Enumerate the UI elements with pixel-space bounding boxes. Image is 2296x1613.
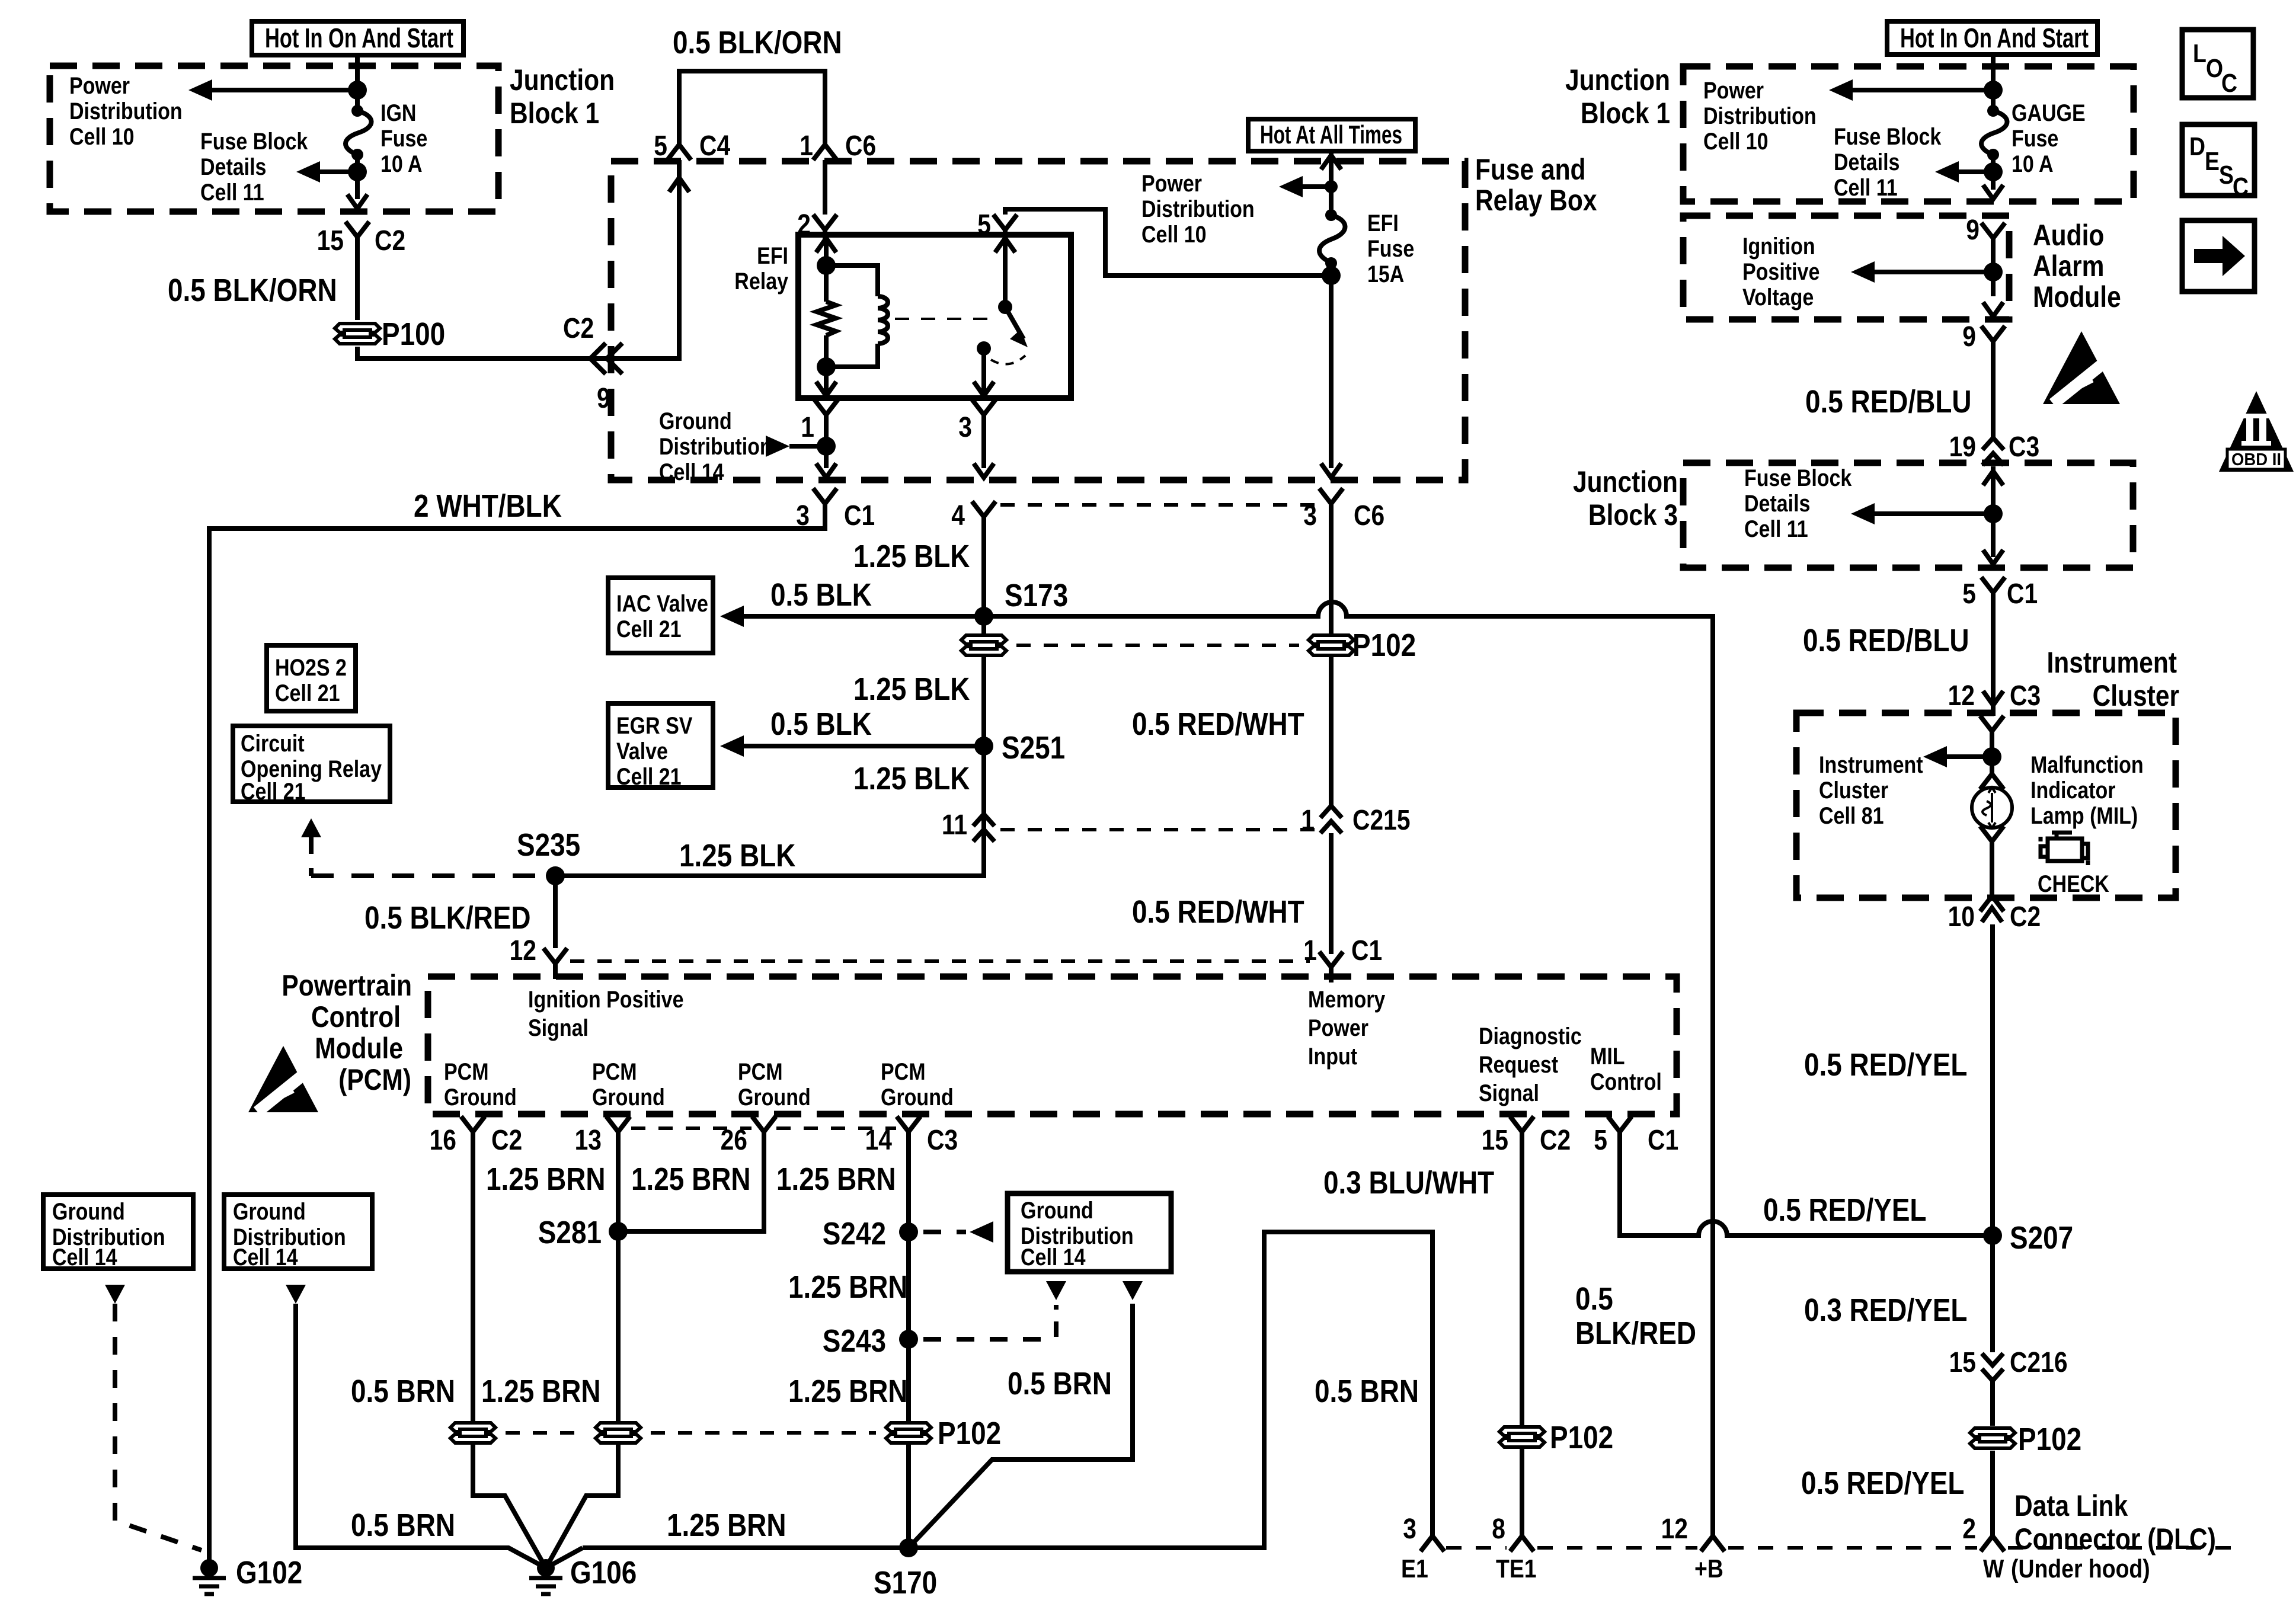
fuse GAUGE Fuse 10 A [1981, 111, 2007, 155]
wire bracket C4 to C6 [679, 71, 825, 141]
svg-text:PCM: PCM [881, 1058, 926, 1084]
relay coil [826, 265, 878, 296]
svg-text:Ground: Ground [881, 1083, 954, 1110]
svg-text:Positive: Positive [1742, 258, 1819, 284]
svg-text:15: 15 [1482, 1125, 1508, 1156]
label box: Hot In On And Start (left) [252, 21, 463, 55]
ground distribution box (second) [224, 1195, 372, 1269]
svg-text:+B: +B [1694, 1554, 1723, 1583]
svg-text:Module: Module [2033, 280, 2121, 313]
svg-text:Hot At All Times: Hot At All Times [1260, 120, 1402, 149]
PCM bottom connectors [461, 1116, 485, 1147]
svg-text:P102: P102 [1352, 628, 1416, 663]
pass-through P100 [335, 324, 380, 344]
junction block 3 dashed box [1683, 463, 2133, 568]
wire C216 to P102 [1990, 1381, 1995, 1426]
svg-text:Data Link: Data Link [2014, 1489, 2128, 1522]
svg-text:0.5 RED/WHT: 0.5 RED/WHT [1132, 706, 1304, 742]
svg-text:Indicator: Indicator [2030, 776, 2116, 803]
svg-text:Connector (DLC): Connector (DLC) [2014, 1522, 2216, 1556]
svg-text:Ignition Positive: Ignition Positive [528, 985, 683, 1012]
svg-text:S173: S173 [1005, 578, 1068, 613]
EGR SV Valve box [608, 703, 713, 788]
wire relay output 4 down to S173 [981, 532, 986, 616]
svg-text:3: 3 [1403, 1513, 1416, 1545]
svg-text:5: 5 [654, 130, 667, 162]
svg-text:Ground: Ground [1021, 1196, 1093, 1223]
wire PCM 14 down to S170 [906, 1147, 911, 1548]
svg-text:EGR SV: EGR SV [616, 712, 693, 738]
svg-text:13: 13 [575, 1125, 602, 1156]
JB3 bottom arrowhead [1983, 550, 2003, 564]
svg-text:12: 12 [1948, 680, 1975, 712]
connector 5 C1 [1981, 577, 2005, 608]
thin dashed P102 link [1016, 644, 1299, 647]
svg-text:2 WHT/BLK: 2 WHT/BLK [414, 488, 562, 524]
wire through JB3 [1991, 466, 1996, 557]
svg-text:8: 8 [1492, 1513, 1505, 1545]
svg-text:0.5: 0.5 [1575, 1281, 1613, 1317]
svg-text:Hot In On And Start: Hot In On And Start [265, 23, 453, 53]
svg-text:C: C [2221, 68, 2237, 98]
connector 15 C2 [346, 222, 369, 252]
svg-text:S242: S242 [823, 1216, 886, 1252]
wire 0.5 BRN from second box to G106 [296, 1304, 546, 1568]
svg-text:1: 1 [1301, 805, 1315, 836]
connector 2 above relay [813, 215, 837, 245]
node S242 [899, 1222, 918, 1241]
svg-text:Valve: Valve [616, 737, 668, 764]
svg-text:S251: S251 [1002, 730, 1065, 766]
svg-text:GAUGE: GAUGE [2012, 99, 2086, 126]
svg-text:O: O [2206, 53, 2223, 83]
svg-text:C3: C3 [927, 1125, 958, 1156]
svg-text:0.5 RED/YEL: 0.5 RED/YEL [1801, 1465, 1964, 1501]
svg-text:C1: C1 [1648, 1125, 1678, 1156]
svg-text:1.25 BRN: 1.25 BRN [776, 1161, 896, 1197]
wire 5 C1 MIL control to S207 [1620, 1147, 1993, 1236]
wire 0.5 BRN from right arrow to S170 [909, 1304, 1133, 1548]
relay coil exit down [824, 367, 829, 395]
connector 8 TE1 [1510, 1521, 1534, 1551]
arrow S251 to EGR valve [744, 744, 984, 748]
svg-text:P102: P102 [2018, 1422, 2081, 1457]
svg-text:C2: C2 [2010, 901, 2041, 933]
svg-text:PCM: PCM [444, 1058, 489, 1084]
svg-text:Fuse: Fuse [1367, 235, 1414, 261]
svg-text:Cluster: Cluster [1819, 776, 1888, 803]
svg-text:C6: C6 [845, 130, 876, 162]
svg-text:S281: S281 [538, 1215, 602, 1250]
svg-text:9: 9 [1962, 321, 1976, 353]
svg-text:0.5 BRN: 0.5 BRN [1315, 1374, 1419, 1409]
svg-text:Relay Box: Relay Box [1475, 184, 1597, 217]
wire EFI fuse down to box bottom [1329, 263, 1334, 468]
Circuit Opening Relay box [233, 726, 390, 802]
svg-text:IGN: IGN [380, 99, 416, 126]
connector 3 below relay [972, 399, 996, 430]
svg-text:Junction: Junction [1565, 63, 1670, 97]
junction block 1 (left) dashed box [50, 66, 498, 212]
wire lamp to C2 [1990, 857, 1994, 896]
svg-text:Power: Power [1308, 1014, 1368, 1041]
wire from hot box down [1991, 55, 1996, 111]
svg-text:Ground: Ground [738, 1083, 811, 1110]
svg-text:0.5 BRN: 0.5 BRN [351, 1374, 455, 1409]
dashed run to G102 wire [115, 1304, 202, 1550]
svg-text:2: 2 [1962, 1513, 1976, 1545]
arrow to Fuse Block Details Cell 11 [303, 169, 357, 174]
connector 12 [543, 948, 567, 979]
svg-text:0.5 BLK/RED: 0.5 BLK/RED [364, 900, 531, 936]
svg-text:HO2S 2: HO2S 2 [275, 654, 347, 680]
thin dashed connector line 4 to C6 [1000, 503, 1315, 507]
connector arrows into C2 (9) [590, 343, 622, 374]
wire PCM 26 down to S281 [618, 1147, 764, 1231]
arrow to Power Distribution Cell 10 (right) [1836, 88, 1993, 92]
wire: IGN feed vertical [355, 55, 360, 111]
pass-through P102 on S173 branch [981, 616, 986, 635]
ground distribution box (middle) [1008, 1193, 1171, 1272]
svg-text:TE1: TE1 [1496, 1554, 1537, 1583]
pass-through P102 on RED/WHT wire [1309, 635, 1354, 655]
svg-text:Instrument: Instrument [2046, 646, 2177, 679]
relay switch output down [981, 348, 986, 395]
connector 3 E1 [1421, 1521, 1444, 1551]
svg-text:Power: Power [69, 72, 130, 98]
svg-text:Fuse: Fuse [380, 124, 427, 151]
svg-text:Cell 21: Cell 21 [275, 679, 340, 706]
svg-text:P102: P102 [938, 1416, 1001, 1451]
svg-text:W: W [1983, 1554, 2004, 1583]
wire C215 down to 1 C1 [1329, 833, 1334, 954]
svg-text:BLK/RED: BLK/RED [1575, 1316, 1696, 1351]
wire C6 down to relay pin 2 [823, 160, 827, 215]
svg-text:Memory: Memory [1308, 985, 1386, 1012]
svg-text:C2: C2 [491, 1125, 522, 1156]
connector 5 C4 [667, 129, 691, 160]
svg-text:Block 3: Block 3 [1588, 498, 1678, 532]
svg-text:Cell 10: Cell 10 [69, 123, 135, 149]
wire S235 to 11 riser [555, 841, 984, 876]
svg-text:Cell 14: Cell 14 [1021, 1243, 1086, 1270]
svg-text:C1: C1 [2007, 578, 2038, 610]
svg-text:OBD II: OBD II [2231, 450, 2281, 469]
svg-text:EFI: EFI [757, 242, 788, 268]
IAC Valve box [608, 578, 713, 653]
svg-text:9: 9 [1966, 215, 1980, 246]
svg-text:Junction: Junction [1573, 465, 1678, 498]
svg-text:Cell 14: Cell 14 [659, 458, 724, 485]
svg-text:Power: Power [1141, 169, 1202, 196]
fuse and relay box dashed [611, 161, 1465, 480]
svg-text:E: E [2205, 146, 2220, 176]
svg-text:15: 15 [1949, 1347, 1976, 1378]
svg-text:1.25 BLK: 1.25 BLK [679, 838, 795, 873]
svg-text:12: 12 [510, 935, 536, 966]
svg-text:Ground: Ground [592, 1083, 665, 1110]
wire +B down (memory power feed) [1710, 1534, 1715, 1536]
svg-text:3: 3 [958, 412, 972, 443]
pass-through P102 on wire 13 [596, 1423, 641, 1443]
svg-text:D: D [2189, 132, 2205, 161]
svg-text:Ground: Ground [52, 1198, 125, 1224]
svg-text:S243: S243 [823, 1323, 886, 1359]
svg-text:C215: C215 [1352, 805, 1411, 836]
wire down to P100 [355, 252, 360, 320]
wire arrowhead at box bottom [347, 194, 367, 209]
audio alarm module dashed box [1683, 216, 2009, 319]
arrow Ignition Positive Voltage [1858, 270, 1993, 274]
svg-text:Cell 11: Cell 11 [200, 178, 264, 205]
connector 9 below audio box [1981, 326, 2005, 357]
svg-text:Signal: Signal [528, 1014, 589, 1041]
ground G106 [537, 1559, 555, 1577]
svg-text:Alarm: Alarm [2033, 249, 2104, 283]
svg-text:0.5 BRN: 0.5 BRN [351, 1508, 455, 1543]
connector 1 C6 [813, 129, 837, 160]
svg-text:Powertrain: Powertrain [282, 969, 412, 1002]
svg-text:Junction: Junction [510, 63, 615, 97]
svg-text:C216: C216 [2010, 1347, 2068, 1378]
node S170 [899, 1538, 918, 1557]
connector chevron below IC top [1980, 716, 2004, 747]
wire 5C1 to 12 C3 [1991, 608, 1996, 687]
arrow to Power Distribution Cell 10 [196, 88, 357, 92]
MIL lamp symbol [1980, 759, 2004, 789]
svg-text:E1: E1 [1401, 1554, 1428, 1583]
svg-text:Circuit: Circuit [241, 729, 305, 756]
ground G102 [200, 1559, 218, 1577]
svg-text:1: 1 [1303, 935, 1317, 966]
connector 9 at audio box top [1981, 223, 2005, 254]
svg-text:PCM: PCM [592, 1058, 637, 1084]
wire S170 to E1 riser [909, 1232, 1432, 1548]
connector 1 C215 [1320, 806, 1342, 833]
OBD II symbol [2219, 391, 2294, 472]
connector 2 W [1981, 1521, 2004, 1551]
svg-text:Distribution: Distribution [659, 433, 772, 459]
svg-text:Audio: Audio [2033, 219, 2104, 252]
svg-text:19: 19 [1949, 431, 1976, 463]
svg-text:0.5 RED/BLU: 0.5 RED/BLU [1803, 623, 1969, 658]
wire RED/WHT C6 to C215 [1329, 519, 1334, 635]
check engine icon [2041, 833, 2088, 865]
svg-text:Cell 21: Cell 21 [616, 763, 682, 789]
pass-through P102 on wire 16 [450, 1423, 495, 1443]
svg-text:Cluster: Cluster [2093, 679, 2179, 712]
arrow to Fuse Block Details Cell 11 (right) [1942, 169, 1993, 174]
connector 1 C1 memory power [1319, 952, 1343, 982]
svg-text:MIL: MIL [1590, 1042, 1625, 1069]
wire PCM 13 down to G106 [546, 1147, 618, 1568]
svg-text:0.5 BRN: 0.5 BRN [1008, 1366, 1112, 1401]
wire S207 down to C216 [1990, 924, 1995, 1352]
svg-text:S170: S170 [874, 1565, 937, 1601]
svg-text:C2: C2 [375, 225, 405, 257]
junction block 1 (right) dashed box [1683, 66, 2134, 201]
arrow Fuse Block Details Cell 11 (JB3) [1858, 511, 1993, 516]
DESC box [2182, 124, 2255, 196]
svg-text:C1: C1 [844, 500, 875, 532]
dashed arrow from S235 to circuit opening relay [301, 818, 321, 837]
svg-text:Ignition: Ignition [1742, 232, 1815, 259]
wire S173 to S251 [981, 655, 986, 746]
svg-text:Cell 11: Cell 11 [1834, 174, 1898, 200]
svg-text:Distribution: Distribution [69, 97, 183, 124]
ESD symbol at PCM [248, 1046, 323, 1116]
svg-text:0.5 RED/YEL: 0.5 RED/YEL [1804, 1047, 1967, 1083]
ESD symbol near audio alarm [2043, 331, 2124, 408]
bottom 1.25 BRN bus into G106 [583, 1545, 909, 1550]
svg-text:5: 5 [977, 209, 991, 241]
label box: Hot In On And Start (right) [1887, 21, 2097, 55]
arrow Instrument Cluster Cell 81 [1982, 747, 2001, 766]
svg-text:IAC Valve: IAC Valve [616, 590, 708, 616]
svg-text:10: 10 [1948, 901, 1975, 933]
wire to MIL lamp [1990, 731, 1994, 776]
svg-text:Cell 11: Cell 11 [1744, 515, 1808, 542]
pass-through P102 on TE1 wire [1499, 1427, 1544, 1447]
node S173 [974, 607, 993, 626]
svg-text:1.25 BRN: 1.25 BRN [481, 1374, 601, 1409]
svg-text:Control: Control [311, 1000, 401, 1033]
powertrain control module dashed box [428, 977, 1677, 1114]
svg-text:1.25 BLK: 1.25 BLK [853, 539, 970, 574]
connector 3 C6 [1319, 488, 1343, 519]
svg-text:EFI: EFI [1367, 209, 1399, 236]
svg-text:16: 16 [430, 1125, 456, 1156]
svg-text:Ground: Ground [233, 1198, 306, 1224]
svg-text:C2: C2 [1540, 1125, 1571, 1156]
svg-text:CHECK: CHECK [2038, 870, 2109, 897]
svg-text:S: S [2219, 160, 2234, 190]
arrow below far-left box [105, 1285, 125, 1304]
wire pin1 down to box bottom [824, 430, 829, 468]
connector 3 C1 [813, 488, 837, 519]
wire 15 C2 diagnostic request down to TE1 [1520, 1147, 1524, 1536]
EFI relay box [798, 235, 1071, 398]
svg-text:C3: C3 [2010, 680, 2041, 712]
bottom dashed connector line [1446, 1546, 1507, 1550]
next-page arrow box [2182, 220, 2255, 292]
svg-text:Cell 10: Cell 10 [1141, 220, 1207, 247]
wire in audio box [1991, 254, 1996, 296]
svg-text:Relay: Relay [734, 267, 788, 294]
relay switch contact feed [995, 238, 1015, 252]
svg-text:Module: Module [315, 1032, 403, 1065]
dashed S243 to left arrow [923, 1337, 1056, 1342]
svg-text:0.3 RED/YEL: 0.3 RED/YEL [1804, 1292, 1967, 1328]
svg-text:5: 5 [1594, 1125, 1607, 1156]
svg-text:12: 12 [1661, 1513, 1688, 1545]
svg-text:Cell 14: Cell 14 [52, 1243, 117, 1270]
relay dashed actuator link [895, 318, 996, 320]
svg-text:S235: S235 [517, 827, 580, 863]
svg-text:11: 11 [942, 809, 967, 841]
svg-text:Input: Input [1308, 1042, 1357, 1069]
arrow below second box [286, 1285, 306, 1304]
wire 9 to 19 C3 [1991, 357, 1996, 441]
svg-text:Cell 21: Cell 21 [616, 615, 682, 642]
dashed link S242 to ground distribution box [923, 1230, 966, 1234]
svg-text:Voltage: Voltage [1742, 283, 1814, 310]
svg-text:Fuse Block: Fuse Block [1744, 464, 1852, 491]
svg-text:Cell 10: Cell 10 [1703, 127, 1769, 154]
wire from pin5 over to EFI fuse output [1005, 209, 1331, 276]
svg-text:Power: Power [1703, 76, 1764, 103]
pass-through P102 on wire 14 [886, 1423, 931, 1443]
svg-text:Ground: Ground [659, 407, 732, 434]
svg-text:C2: C2 [563, 313, 594, 344]
svg-text:G106: G106 [570, 1555, 637, 1590]
svg-text:1: 1 [801, 412, 814, 443]
svg-text:Fuse Block: Fuse Block [1834, 123, 1942, 149]
node S251 [974, 737, 993, 756]
svg-text:1.25 BRN: 1.25 BRN [788, 1269, 908, 1305]
svg-text:1.25 BLK: 1.25 BLK [853, 671, 970, 707]
connector 5 above relay switch [993, 215, 1017, 245]
EFI fuse feed wire [1329, 151, 1334, 215]
wire from P100 right to C2 and up to C4 [357, 160, 679, 359]
wire pin3 down to box bottom [981, 430, 986, 468]
node S235 [546, 866, 565, 885]
svg-text:0.5 BLK: 0.5 BLK [770, 577, 872, 613]
svg-text:(PCM): (PCM) [338, 1063, 411, 1096]
thin dashed P102 links [506, 1431, 586, 1435]
thin dashed C3 connector line [631, 1126, 752, 1130]
wire S235 down to 12 [553, 876, 558, 948]
svg-text:L: L [2193, 39, 2207, 68]
HO2S 2 box [267, 645, 356, 711]
svg-text:Fuse Block: Fuse Block [200, 127, 308, 154]
connector 4 [972, 501, 996, 532]
wire S251 down to 11 [981, 746, 986, 877]
svg-text:Diagnostic: Diagnostic [1479, 1022, 1582, 1049]
svg-text:Cell 21: Cell 21 [241, 777, 306, 804]
svg-text:Details: Details [1834, 148, 1900, 175]
arrow S173 to IAC valve [744, 614, 984, 619]
svg-text:Control: Control [1590, 1068, 1662, 1094]
svg-text:Fuse and: Fuse and [1475, 153, 1586, 186]
node S207 [1983, 1226, 2002, 1245]
svg-text:Distribution: Distribution [1703, 102, 1817, 129]
fuse IGN Fuse 10 A [346, 111, 372, 155]
svg-text:C: C [2233, 172, 2249, 201]
arrows below middle box [1046, 1281, 1066, 1300]
connector 1 below relay [814, 399, 838, 430]
ground distribution box (far left) [43, 1195, 193, 1269]
svg-text:Signal: Signal [1479, 1079, 1539, 1106]
svg-text:S207: S207 [2010, 1220, 2073, 1256]
svg-text:4: 4 [951, 500, 965, 532]
relay coil branch [816, 238, 836, 252]
node S281 [609, 1222, 628, 1241]
svg-text:15: 15 [317, 225, 344, 257]
thin dashed connector line 12 to C1 [570, 959, 1310, 963]
connector 12 +B [1701, 1521, 1725, 1551]
svg-text:C3: C3 [2009, 431, 2039, 463]
svg-text:PCM: PCM [738, 1058, 783, 1084]
svg-text:Cell 14: Cell 14 [233, 1243, 298, 1270]
connector 11 [973, 814, 994, 841]
svg-text:1.25 BRN: 1.25 BRN [486, 1161, 606, 1197]
wire S173 long feed to right column [984, 602, 1713, 1534]
Hot At All Times box [1248, 119, 1415, 151]
svg-text:Cell 81: Cell 81 [1819, 802, 1884, 828]
connector 19 C3 [1982, 438, 2004, 465]
svg-text:0.5 BLK: 0.5 BLK [770, 706, 872, 742]
